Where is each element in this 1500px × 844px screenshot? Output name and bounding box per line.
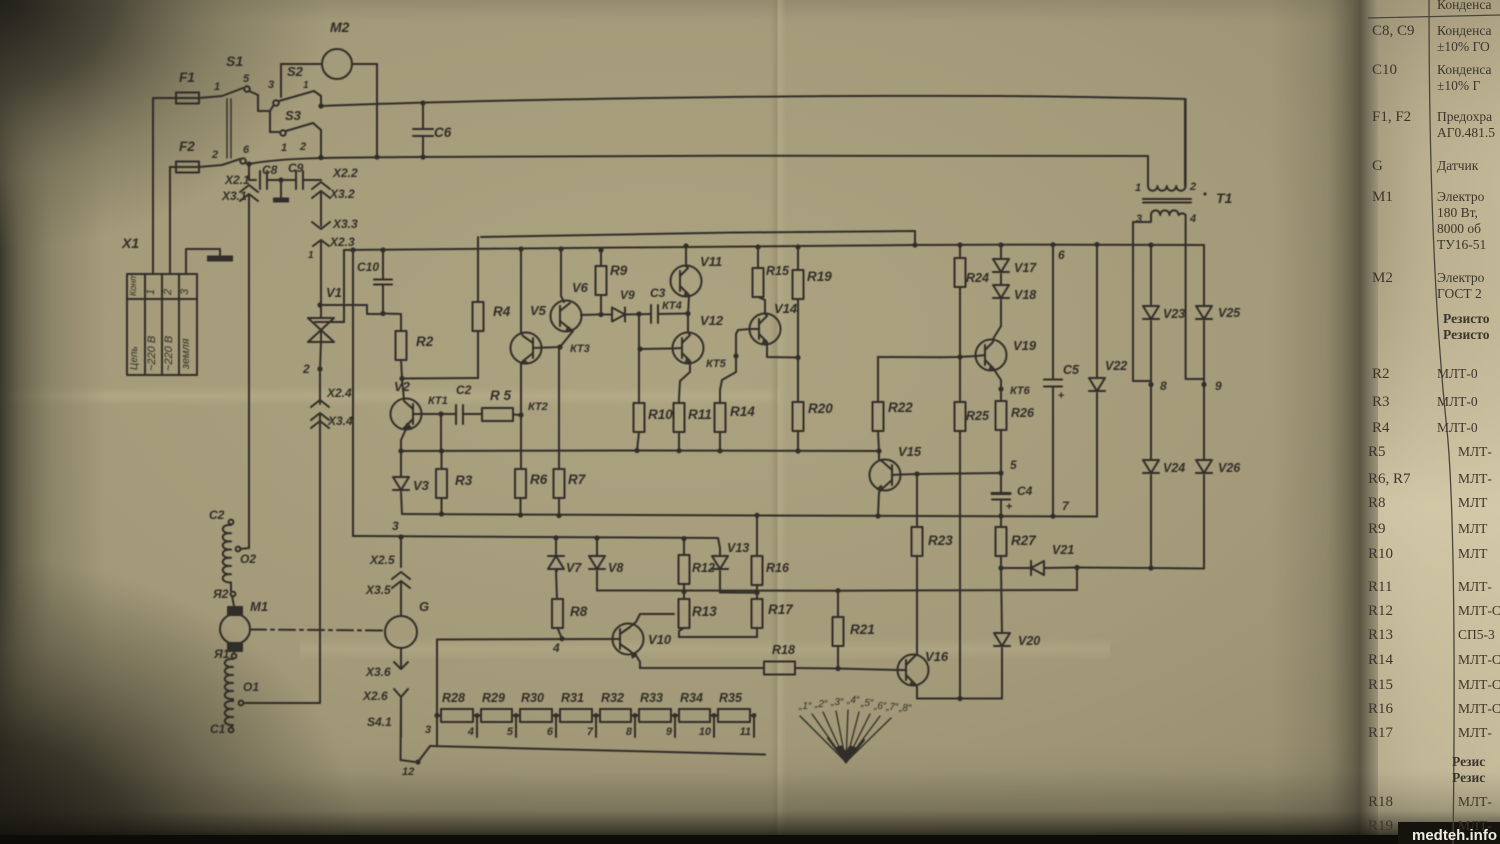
svg-text:X3.5: X3.5 <box>365 583 391 597</box>
resistor R23 <box>912 527 923 654</box>
wire V6 to V9 row <box>581 314 599 317</box>
resistor R5 label <box>490 388 512 403</box>
connector X2.6 <box>394 689 408 737</box>
svg-text:8: 8 <box>626 726 633 738</box>
X1 pin 2 text <box>162 289 175 371</box>
T1 pin2 label <box>1189 181 1196 193</box>
transistor V11 <box>671 246 702 313</box>
wire X1 pin1 to F1 <box>153 98 176 274</box>
svg-text:Датчик: Датчик <box>1437 158 1479 173</box>
resistor R14 label <box>730 404 755 419</box>
node V5 top bus D <box>518 246 523 251</box>
svg-text:R 5: R 5 <box>490 388 512 403</box>
svg-text:S1: S1 <box>226 53 243 69</box>
svg-text:МЛТ-: МЛТ- <box>1458 579 1492 594</box>
switch S4.1 label <box>367 715 392 729</box>
svg-text:X1: X1 <box>121 235 139 251</box>
svg-text:КТ6: КТ6 <box>1010 385 1031 397</box>
wire V1 right to bus D <box>343 250 345 322</box>
svg-text:О2: О2 <box>240 552 256 566</box>
switch S2 label <box>287 64 304 79</box>
connector X2.5 <box>392 537 410 588</box>
svg-text:СП5-3: СП5-3 <box>1458 627 1495 642</box>
svg-text:R19: R19 <box>1368 818 1393 834</box>
node 5 label <box>1010 458 1017 472</box>
svg-text:4: 4 <box>467 726 474 738</box>
capacitor C2 <box>441 405 482 424</box>
capacitor C5 label <box>1063 363 1080 377</box>
diode V18 <box>993 285 1009 326</box>
transformer T1 core <box>1143 199 1191 203</box>
triac V1 label <box>326 285 342 300</box>
svg-text:S4.1: S4.1 <box>367 715 392 729</box>
capacitor C8 <box>260 171 276 189</box>
svg-text:+: + <box>1058 390 1064 402</box>
resistor R13 <box>679 592 690 638</box>
capacitor C9 <box>287 171 321 189</box>
node R10-V12 junction <box>637 346 642 351</box>
node C6 bottom <box>420 154 425 159</box>
svg-text:V1: V1 <box>326 285 342 300</box>
svg-text:Резисто: Резисто <box>1443 327 1490 342</box>
diode V24 label <box>1163 461 1185 475</box>
svg-text:V11: V11 <box>700 254 722 269</box>
resistor R5 <box>482 408 513 421</box>
node 11 stub <box>740 713 757 738</box>
svg-text:R7: R7 <box>568 472 587 487</box>
svg-text:V25: V25 <box>1218 306 1241 320</box>
svg-text:~220 В: ~220 В <box>146 336 158 371</box>
svg-text:„4“: „4“ <box>846 695 860 706</box>
svg-text:V23: V23 <box>1163 307 1185 321</box>
svg-text:R11: R11 <box>1368 579 1392 595</box>
wire V14 base to KT5 <box>720 329 750 403</box>
wire node3 bus <box>353 536 720 556</box>
svg-text:V19: V19 <box>1013 338 1037 353</box>
svg-text:X3.1: X3.1 <box>221 189 247 203</box>
X2.3 pin 1 label <box>308 250 314 261</box>
capacitor C2 label <box>456 383 472 397</box>
connector X2.2 label <box>332 166 358 180</box>
resistor R22 label <box>888 400 913 415</box>
svg-text:„5“: „5“ <box>860 698 874 709</box>
node V22 top <box>1094 242 1099 247</box>
connector X3.3 label <box>332 217 358 231</box>
svg-text:8: 8 <box>1160 379 1167 393</box>
svg-text:R31: R31 <box>561 691 584 705</box>
transistor V14 label <box>774 301 798 316</box>
S1 pole2 <box>199 158 246 167</box>
node 5 <box>998 470 1003 475</box>
resistor R25 label <box>966 409 990 423</box>
svg-text:Цепь: Цепь <box>129 346 140 370</box>
wire X3.2 down <box>320 193 322 222</box>
resistor R27 label <box>1011 533 1037 548</box>
svg-text:R9: R9 <box>1368 521 1386 537</box>
node R10 top <box>636 311 641 316</box>
node KT4 label <box>662 300 682 312</box>
resistor R34 label <box>680 691 703 705</box>
svg-text:V21: V21 <box>1052 543 1074 557</box>
resistor R12 <box>679 539 690 592</box>
resistor R7 label <box>568 472 587 487</box>
node X2.5 junction <box>398 534 403 539</box>
node V11 collector bus D <box>683 243 688 248</box>
svg-text:2: 2 <box>299 141 306 153</box>
transistor V2 <box>391 379 441 452</box>
svg-text:±10% ГО: ±10% ГО <box>1437 39 1490 54</box>
wire KT3-R7 <box>558 347 560 469</box>
svg-text:+: + <box>1006 501 1012 513</box>
wire R13-R17 bottoms <box>679 636 757 638</box>
node R10 bottom <box>634 448 639 453</box>
resistor R32 label <box>601 691 624 705</box>
svg-text:Т1: Т1 <box>1216 190 1233 206</box>
connector X2.2 <box>312 182 330 198</box>
resistor R26 label <box>1011 406 1035 420</box>
svg-text:R20: R20 <box>808 401 833 416</box>
resistor R20 <box>793 358 804 452</box>
svg-text:Резисто: Резисто <box>1443 311 1490 326</box>
triac V1 <box>308 318 344 342</box>
svg-text:R2: R2 <box>416 334 434 349</box>
resistor R20 label <box>808 401 833 416</box>
svg-text:R2: R2 <box>1372 366 1390 382</box>
svg-text:R5: R5 <box>1368 444 1386 460</box>
diode V25 <box>1196 245 1212 385</box>
svg-text:10: 10 <box>699 726 712 738</box>
node R6 bottom <box>518 512 523 517</box>
diode V17 label <box>1014 261 1037 275</box>
node C10 top <box>380 247 385 252</box>
capacitor C4 <box>992 473 1012 516</box>
diode V7 <box>548 538 564 571</box>
svg-text:МЛТ-С: МЛТ-С <box>1458 677 1500 692</box>
capacitor C3 label <box>650 286 666 300</box>
motor M1 label <box>250 599 268 614</box>
svg-text:C1: C1 <box>210 722 226 736</box>
svg-text:R3: R3 <box>1372 394 1390 410</box>
node S2 bus junction <box>318 103 323 108</box>
svg-text:МЛТ-С: МЛТ-С <box>1458 701 1500 716</box>
svg-text:2: 2 <box>1189 181 1196 193</box>
svg-text:3: 3 <box>392 519 399 533</box>
svg-text:3: 3 <box>268 79 274 91</box>
switch S4.1 wire <box>401 697 416 762</box>
svg-text:R6, R7: R6, R7 <box>1368 471 1411 487</box>
node R9 top <box>598 247 603 252</box>
diode V13 <box>712 556 757 593</box>
resistor R25 <box>955 357 966 699</box>
node R24-R25 junction <box>957 354 962 359</box>
transistor V16 <box>897 654 929 699</box>
svg-text:„6“: „6“ <box>873 701 887 712</box>
svg-text:C6: C6 <box>434 125 452 140</box>
X1 header cell text <box>128 273 140 370</box>
svg-text:R18: R18 <box>1368 794 1393 810</box>
resistor R12 label <box>692 561 715 575</box>
connector X1 table <box>127 274 197 375</box>
S1 pole2 contact 2 label <box>211 149 218 161</box>
diode V20 <box>917 568 1010 699</box>
node KT5 <box>733 353 738 358</box>
S2 contact 1 label <box>303 80 309 91</box>
node KT2 label <box>528 401 548 413</box>
transistor V5 label <box>530 303 547 318</box>
transistor V19 label <box>1013 338 1037 353</box>
node 10 stub <box>699 713 717 738</box>
wire V6 collector <box>561 249 564 302</box>
node R21 top <box>835 588 840 593</box>
connector X2.6 label <box>362 689 388 703</box>
M1 brush bottom <box>228 643 242 651</box>
node V24 bottom <box>1148 565 1153 570</box>
svg-text:R30: R30 <box>521 691 544 705</box>
svg-text:C3: C3 <box>650 286 666 300</box>
wire wiper line <box>430 746 765 755</box>
svg-text:R27: R27 <box>1011 533 1037 548</box>
svg-text:„7“: „7“ <box>885 702 899 713</box>
S2 contact <box>273 100 279 106</box>
node C4 bottom <box>998 513 1003 518</box>
svg-text:C10: C10 <box>357 260 379 274</box>
transistor V11 label <box>700 254 722 269</box>
motor M1 <box>220 614 250 644</box>
connector X3.4 label <box>327 414 353 428</box>
svg-text:V9: V9 <box>620 288 635 302</box>
svg-text:О1: О1 <box>243 680 259 694</box>
resistor R27 <box>996 516 1007 568</box>
svg-text:R12: R12 <box>1368 603 1393 619</box>
transistor V10 label <box>648 632 672 647</box>
svg-text:7: 7 <box>587 726 594 738</box>
S3 contact 2 label <box>299 141 306 153</box>
wire node5 to V15 base <box>901 473 1001 475</box>
svg-text:МЛТ: МЛТ <box>1458 521 1488 536</box>
node V2 emitter <box>398 448 403 453</box>
resistor R28 label <box>442 691 465 705</box>
svg-text:V3: V3 <box>413 478 430 493</box>
svg-text:МЛТ-: МЛТ- <box>1458 794 1492 809</box>
node 2 label <box>302 362 310 376</box>
resistor R17 <box>752 593 763 637</box>
node R24 top <box>957 242 962 247</box>
O2 tap <box>236 546 249 551</box>
svg-text:R13: R13 <box>1368 627 1393 643</box>
resistor R13 label <box>692 604 717 619</box>
svg-text:V13: V13 <box>727 541 749 555</box>
svg-text:Электро: Электро <box>1437 270 1485 285</box>
node V1 top <box>317 302 322 307</box>
svg-text:R12: R12 <box>692 561 715 575</box>
svg-text:R15: R15 <box>1368 677 1393 693</box>
wire M2 left <box>281 64 322 97</box>
transformer T1 label <box>1216 190 1233 206</box>
node C6 top <box>420 100 425 105</box>
node KT3 label <box>570 343 590 355</box>
wire bus B <box>249 155 1148 178</box>
capacitor C9 label <box>288 161 304 175</box>
svg-text:R35: R35 <box>719 691 743 705</box>
connector X2.5 label <box>369 553 395 567</box>
connector X1 label <box>121 235 139 251</box>
node 6 stub <box>547 713 559 738</box>
fuse F2 <box>176 162 199 173</box>
node R8 bottom <box>559 636 564 641</box>
node R3 top <box>439 448 444 453</box>
wire V19 base <box>940 356 977 357</box>
svg-text:V15: V15 <box>898 444 922 459</box>
svg-text:V12: V12 <box>700 313 724 328</box>
wire contact6 row <box>249 164 256 180</box>
table separator rule <box>1429 0 1454 844</box>
svg-text:МЛТ: МЛТ <box>1458 495 1488 510</box>
wire X3.1 down <box>248 196 250 546</box>
motor M2 <box>322 49 352 79</box>
resistor R4 <box>402 237 484 379</box>
S1 contact 5 label <box>243 73 250 85</box>
switch S3 label <box>285 108 302 123</box>
svg-text:F1, F2: F1, F2 <box>1372 109 1411 125</box>
diode V8 <box>589 538 605 591</box>
wire to R2 <box>383 314 401 332</box>
svg-text:M1: M1 <box>250 599 268 614</box>
S1 pole1 <box>199 86 250 98</box>
resistor R19 label <box>807 269 832 284</box>
wire y591 line <box>597 568 1077 591</box>
svg-text:V26: V26 <box>1218 461 1241 475</box>
svg-text:R18: R18 <box>772 643 795 657</box>
resistor R16 <box>752 515 763 592</box>
transistor V10 <box>613 614 644 668</box>
node R20 bottom <box>795 448 800 453</box>
svg-text:„2“: „2“ <box>814 699 828 710</box>
wire KT2-R6 <box>520 415 522 469</box>
capacitor C4 label <box>1017 484 1033 498</box>
transistor V15 label <box>898 444 922 459</box>
resistor R30 label <box>521 691 544 705</box>
svg-text:R28: R28 <box>442 691 465 705</box>
svg-text:4: 4 <box>552 641 560 655</box>
wire V10 collector to R13 <box>640 613 674 615</box>
svg-text:8000 об: 8000 об <box>1437 221 1481 236</box>
diode V7 label <box>566 561 582 575</box>
node 9 <box>1201 382 1206 387</box>
svg-text:R34: R34 <box>680 691 703 705</box>
svg-text:Конденса: Конденса <box>1437 23 1492 38</box>
wire R5 to KT2 <box>513 414 521 417</box>
svg-text:V14: V14 <box>774 301 798 316</box>
svg-text:R23: R23 <box>928 533 953 548</box>
resistor R7 <box>554 469 565 516</box>
resistor R2 <box>396 331 407 378</box>
svg-text:C8: C8 <box>262 163 278 177</box>
svg-text:X2.6: X2.6 <box>362 689 388 703</box>
diode V22 label <box>1105 359 1127 373</box>
transistor V16 label <box>925 649 949 664</box>
node bus C join <box>912 242 917 247</box>
svg-text:R6: R6 <box>530 472 548 487</box>
resistor R9 label <box>610 263 628 278</box>
svg-text:R29: R29 <box>482 691 505 705</box>
svg-text:Электро: Электро <box>1437 189 1485 204</box>
svg-text:6: 6 <box>243 144 250 156</box>
svg-text:3: 3 <box>425 724 431 736</box>
resistor R22 <box>873 357 884 451</box>
capacitor C5 <box>1044 245 1064 516</box>
transistor V12 label <box>700 313 724 328</box>
connector X3.1 label <box>221 189 247 203</box>
node 8 stub <box>626 713 638 738</box>
node 3 label <box>392 519 399 533</box>
X1 pin 3 text <box>179 288 192 370</box>
node R16 top <box>754 513 759 518</box>
diode V3 label <box>413 478 430 493</box>
svg-text:МЛТ-С: МЛТ-С <box>1458 652 1500 667</box>
node 3 stub label <box>425 724 431 736</box>
node chain 3 <box>434 713 439 718</box>
resistor R23 label <box>928 533 953 548</box>
node R14 bottom <box>717 448 722 453</box>
connector X2.1 label <box>224 173 250 187</box>
node R12 top <box>681 536 686 541</box>
node 9 label <box>1215 379 1222 393</box>
svg-text:~220 В: ~220 В <box>163 336 175 371</box>
C2 terminal <box>229 520 234 525</box>
transistor V5 <box>511 333 561 416</box>
resistor R8 label <box>570 604 588 619</box>
transistor V6 label <box>572 280 589 295</box>
fuse F1 <box>176 93 199 104</box>
svg-text:X2.4: X2.4 <box>326 386 352 400</box>
node V21 right junction <box>1074 565 1079 570</box>
connector X2.4 <box>311 369 329 407</box>
svg-text:M1: M1 <box>1372 189 1393 205</box>
svg-text:3: 3 <box>179 288 191 295</box>
svg-text:±10% Г: ±10% Г <box>1437 78 1481 93</box>
node 9 stub <box>666 713 678 738</box>
Ya2 label <box>212 587 229 601</box>
connector X2.3 <box>313 240 329 252</box>
wire S1-6 to node <box>246 163 249 164</box>
O2 tap label <box>240 552 256 566</box>
wire emitter bus <box>401 450 879 453</box>
generator G <box>385 583 417 648</box>
svg-text:F2: F2 <box>179 139 195 154</box>
diode V24 <box>1143 385 1159 569</box>
svg-text:medteh.info: medteh.info <box>1412 827 1497 844</box>
connector X3.6 label <box>365 665 391 679</box>
node bus D start <box>350 247 355 252</box>
svg-text:6: 6 <box>1058 248 1065 262</box>
svg-text:R14: R14 <box>730 404 755 419</box>
resistor R15 <box>753 247 766 300</box>
node KT5 label <box>706 358 727 370</box>
svg-text:X3.6: X3.6 <box>365 665 391 679</box>
T1 pin1 label <box>1135 182 1141 194</box>
resistor R29 label <box>482 691 505 705</box>
svg-text:X3.2: X3.2 <box>329 187 355 201</box>
resistor R14 <box>715 403 726 451</box>
connector X2.3 label <box>329 235 355 249</box>
M1 brush top <box>228 607 242 615</box>
diode V23 <box>1143 245 1159 385</box>
resistor R24 <box>955 245 966 357</box>
node V8 top <box>594 535 599 540</box>
node KT6 label <box>1010 385 1031 397</box>
node R2 bottom <box>399 376 404 381</box>
svg-text:R33: R33 <box>640 691 663 705</box>
